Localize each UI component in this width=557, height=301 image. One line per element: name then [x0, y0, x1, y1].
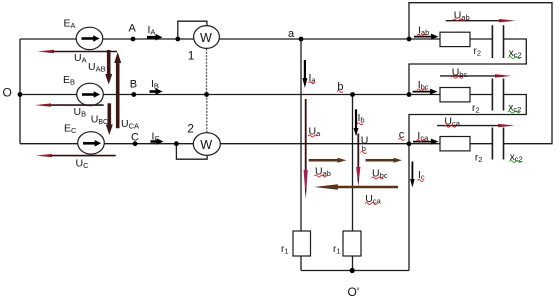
wire line A (phase A horizontal) — [20, 38, 440, 40]
node a dot — [299, 37, 304, 42]
voltage arrow Ubc mid (points right) — [366, 159, 394, 162]
node wattmeter-B junction — [204, 92, 209, 97]
voltage arrow UC (points left) — [46, 155, 116, 157]
source EC — [78, 132, 105, 154]
node O dot — [18, 92, 23, 97]
voltage arrow Uca top (points right) — [437, 125, 499, 127]
source EB — [77, 83, 104, 105]
voltage arrow Uab top (points right) — [446, 20, 508, 22]
voltage arrow UCA (points up) — [116, 62, 120, 128]
wire drop from node a to r1 — [300, 39, 302, 271]
current arrow Ica — [413, 141, 432, 143]
wire branch b2 line (b to r2) — [409, 94, 440, 96]
capacitor Xc2 branch3 — [492, 128, 503, 160]
voltage arrow UB (points left) — [45, 104, 104, 106]
voltage arrow Ib (points down) — [355, 109, 357, 129]
squiggle red under Ib — [357, 123, 363, 125]
squiggle red under Uab mid — [315, 175, 327, 177]
squiggle red under Ica — [417, 140, 426, 142]
squiggle red under Uca top — [444, 125, 456, 127]
source EA (ellipse with arrow) — [76, 27, 103, 49]
svg-text:r1: r1 — [281, 244, 289, 256]
wire branch3 ca: r2 to cap, cap right, outer loop return to node a — [409, 3, 552, 144]
voltage arrow UA (points left) — [48, 51, 117, 53]
node b-branch dot — [407, 92, 412, 97]
wire bottom neutral bus to O' — [301, 270, 409, 272]
wire branch1 ab: r2 to cap, cap to right, return to node b — [409, 39, 526, 95]
resistor r2 branch1 — [440, 32, 470, 46]
voltage arrow UBC (points down) — [108, 103, 112, 125]
node b dot — [350, 92, 355, 97]
wattmeter W2 voltage lead to line B — [206, 95, 208, 133]
svg-text:O': O' — [348, 285, 360, 299]
squiggle red under Ubc top — [451, 76, 463, 78]
wattmeter W2 current-coil loop — [176, 144, 207, 160]
svg-text:W: W — [200, 138, 212, 152]
current arrow Ibc — [413, 91, 432, 93]
node B dot — [131, 92, 136, 97]
squiggle green under Xc2 branch3 — [510, 161, 522, 163]
voltage arrow Ia (points down) — [304, 60, 306, 79]
squiggle green under Xc2 branch2 — [508, 111, 520, 113]
squiggle red under Ub — [361, 152, 367, 154]
node O' dot — [350, 268, 355, 273]
capacitor Xc2 branch1 — [492, 25, 503, 58]
node C dot — [133, 141, 138, 146]
wattmeter W1 current-coil loop — [178, 21, 207, 39]
svg-text:b: b — [337, 81, 343, 93]
node a-branch dot — [407, 37, 412, 42]
squiggle red under Iab — [417, 34, 426, 36]
wire branch2 bc: r2 to cap, cap to right, return to node c — [409, 95, 526, 144]
svg-text:B: B — [130, 79, 137, 91]
wattmeter W1 voltage lead to line B — [206, 48, 208, 94]
squiggle red under Uca mid — [365, 203, 377, 205]
voltage arrow Uca mid (points left) — [336, 186, 398, 189]
wattmeter W2 — [193, 133, 220, 156]
resistor r1 right — [343, 231, 361, 256]
voltage arrow Ua (points down, long) — [305, 99, 307, 171]
wattmeter W1 — [194, 26, 220, 49]
svg-text:r2: r2 — [475, 153, 483, 165]
voltage arrow UAB (points down) — [107, 50, 111, 75]
voltage arrow Ub (points down, long) — [357, 134, 359, 169]
wire drop from node c to O' bus — [408, 144, 410, 271]
svg-text:a: a — [288, 28, 295, 40]
node junction W2 — [174, 141, 179, 146]
svg-text:2: 2 — [187, 122, 194, 136]
squiggle red under Uab top — [453, 19, 465, 21]
voltage arrow Ubc top (points right) — [440, 75, 504, 77]
svg-text:A: A — [129, 23, 137, 35]
svg-text:r2: r2 — [474, 46, 482, 58]
wire drop from node b to r1 — [352, 95, 354, 271]
svg-text:xc2: xc2 — [509, 48, 522, 60]
squiggle green under Xc2 branch1 — [509, 57, 521, 59]
wire left vertical bus — [19, 39, 21, 144]
node c dot — [407, 141, 412, 146]
resistor r2 branch3 — [440, 137, 470, 151]
resistor r1 left — [293, 231, 311, 256]
wire line C (phase C horizontal) — [20, 143, 440, 145]
svg-text:C: C — [131, 132, 139, 144]
svg-text:W: W — [200, 31, 212, 45]
current arrow IC — [151, 140, 158, 143]
resistor r2 branch2 — [440, 88, 470, 102]
squiggle red under Ibc — [417, 89, 426, 91]
node A dot — [131, 37, 136, 42]
squiggle red under Ubc mid — [372, 177, 384, 179]
squiggle red under c — [399, 139, 405, 141]
current arrow Iab — [414, 36, 432, 38]
squiggle red under Ia — [309, 82, 315, 84]
svg-text:O: O — [3, 86, 12, 100]
capacitor Xc2 branch2 — [492, 79, 503, 111]
wire line B (phase B horizontal) — [20, 94, 409, 96]
current arrow IB — [150, 90, 157, 93]
svg-text:1: 1 — [188, 49, 195, 63]
voltage arrow Uab mid (points right) — [309, 159, 338, 162]
svg-text:r2: r2 — [472, 103, 480, 115]
squiggle red under Ic — [418, 180, 424, 182]
voltage arrow Ic (points down) — [411, 162, 413, 181]
svg-text:r1: r1 — [333, 244, 341, 256]
squiggle red under b — [337, 91, 343, 93]
node junction W1 — [175, 37, 180, 42]
current arrow IA — [147, 36, 156, 39]
squiggle red under Ua — [308, 135, 317, 137]
